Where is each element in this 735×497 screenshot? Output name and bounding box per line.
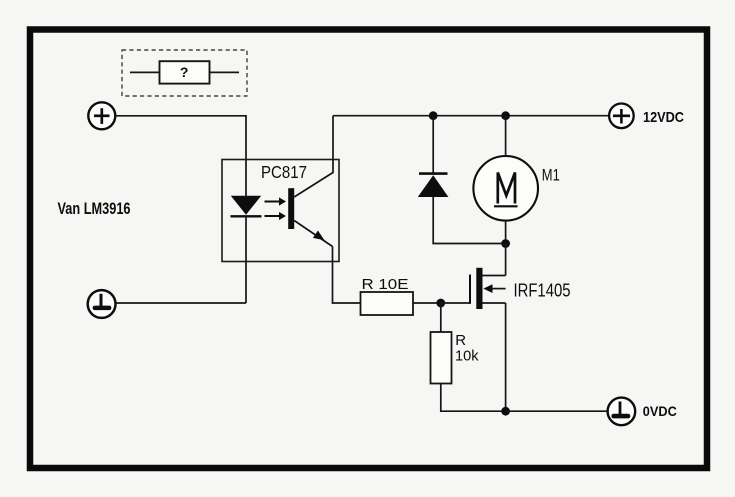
top +12V rail wire xyxy=(333,115,609,117)
flyback diode D1 xyxy=(418,116,506,244)
unknown resistor R? legend (dashed box) xyxy=(122,50,247,96)
resistor R 10k xyxy=(431,303,506,411)
svg-text:M1: M1 xyxy=(542,165,560,184)
label R 10k xyxy=(455,332,479,364)
wire junction to 0VDC terminal xyxy=(506,410,608,412)
phototransistor inside U1 (base bar) xyxy=(288,188,294,229)
terminal + (input from LM3916) xyxy=(88,102,115,129)
ground terminal 0VDC xyxy=(608,398,636,426)
svg-text:PC817: PC817 xyxy=(261,162,307,182)
wire motor bottom to MOSFET drain xyxy=(505,244,507,276)
svg-text:Van LM3916: Van LM3916 xyxy=(58,199,131,218)
svg-text:R 10E: R 10E xyxy=(362,276,409,293)
phototransistor collector wire up to top rail xyxy=(294,116,333,197)
node: motor top junction xyxy=(501,111,510,120)
wire left ground to LED cathode xyxy=(116,302,246,304)
wire junction to gate xyxy=(441,302,470,304)
terminal + 12VDC xyxy=(609,104,634,129)
wire MOSFET source down to 0V rail xyxy=(505,303,507,411)
svg-text:?: ? xyxy=(180,64,189,80)
wire from + terminal to LED anode xyxy=(116,116,246,197)
node: source 0V junction xyxy=(501,407,510,416)
coupling arrow lower xyxy=(265,212,287,220)
svg-text:0VDC: 0VDC xyxy=(643,404,677,419)
resistor R 10E xyxy=(361,292,442,315)
node: diode top junction xyxy=(429,111,438,120)
svg-text:IRF1405: IRF1405 xyxy=(514,281,571,301)
LED inside U1 xyxy=(231,196,262,217)
node: motor bottom junction xyxy=(501,239,510,248)
svg-text:12VDC: 12VDC xyxy=(643,109,684,126)
node: gate divider junction xyxy=(436,299,445,308)
ground terminal (left, input return) xyxy=(88,290,116,318)
svg-text:10k: 10k xyxy=(455,347,479,364)
MOSFET Q1 IRF1405 xyxy=(470,268,506,309)
phototransistor emitter wire with arrow xyxy=(294,221,332,247)
wire LED cathode to ground rail xyxy=(245,216,247,303)
wire emitter down and to R 10E xyxy=(333,247,361,304)
motor M1 xyxy=(473,116,538,244)
optocoupler U1 PC817 package xyxy=(222,160,339,262)
coupling arrow upper xyxy=(265,197,287,205)
